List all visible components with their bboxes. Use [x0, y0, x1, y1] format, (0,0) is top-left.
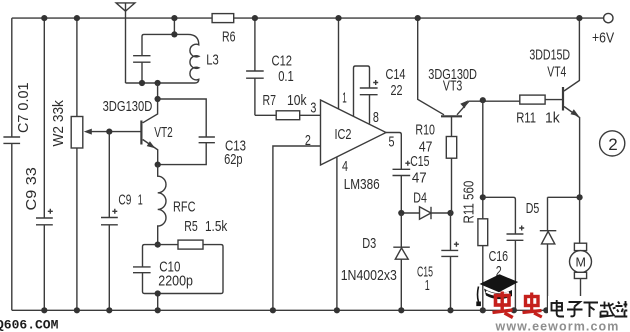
svg-text:8: 8: [373, 110, 379, 126]
node dot tank bottom cap: [139, 80, 145, 86]
inductor L3: [188, 34, 199, 83]
svg-text:1.5k: 1.5k: [205, 219, 228, 235]
capacitor C14: [354, 66, 379, 124]
diode D4: [401, 207, 450, 219]
capacitor C14 label: [386, 67, 406, 99]
watermark red character chong 2: [523, 293, 542, 318]
node dot ground-D3: [398, 307, 404, 313]
svg-text:22: 22: [391, 83, 403, 99]
node dot rail-C9a: [41, 15, 47, 21]
node dot D4 right: [447, 210, 453, 216]
watermark character zi: [567, 302, 583, 316]
node dot rail-VT3: [415, 15, 421, 21]
watermark red character chong 1: [493, 292, 513, 318]
capacitor C16: [483, 197, 524, 310]
diode D3: [393, 213, 410, 310]
node dot VT3 emitter junction: [480, 97, 486, 103]
svg-text:IC2: IC2: [335, 127, 352, 143]
node dot rail-C12: [252, 15, 258, 21]
svg-text:5: 5: [389, 135, 395, 151]
node dot ground-D5: [543, 307, 549, 313]
resistor R7: [255, 111, 321, 120]
node dot wiper junction: [106, 129, 112, 135]
wire wiper to VT2 base: [109, 131, 141, 133]
capacitor C15a label: [410, 154, 429, 187]
capacitor C10 label: [158, 260, 193, 290]
wire pin2 to ground: [273, 146, 321, 310]
svg-text:D4: D4: [413, 191, 427, 207]
capacitor C13 label: [224, 139, 246, 168]
node dot rail-tank: [171, 15, 177, 21]
node dot RFC bottom: [155, 242, 161, 248]
svg-text:R5: R5: [184, 219, 198, 235]
inductor RFC: [158, 165, 166, 245]
svg-text:47: 47: [412, 171, 427, 187]
watermark white panel behind site name: [548, 296, 630, 319]
node dot tank bottom collector: [155, 80, 161, 86]
resistor R7 label: [263, 93, 308, 109]
wire bottom ground rail: [12, 309, 579, 311]
svg-text:0.1: 0.1: [278, 69, 294, 85]
svg-text:www.eeworm.com: www.eeworm.com: [495, 320, 620, 332]
svg-text:1: 1: [138, 193, 143, 209]
node dot ground-C9b: [106, 307, 112, 313]
svg-text:R6: R6: [222, 29, 236, 45]
node dot ground-W2: [74, 307, 80, 313]
capacitor C9b label: [118, 193, 142, 209]
svg-text:3DD15D: 3DD15D: [529, 48, 570, 64]
node dot ground-pin2: [270, 307, 276, 313]
resistor R5 label: [184, 219, 228, 235]
svg-text:W2 33k: W2 33k: [51, 99, 67, 146]
svg-text:D3: D3: [362, 236, 376, 252]
capacitor C15a (47uF on output): [386, 133, 410, 214]
wire pin1 to rail: [338, 18, 340, 109]
svg-text:2200p: 2200p: [158, 274, 193, 290]
node dot ground-R11b: [480, 307, 486, 313]
watermark character zhan: [615, 301, 628, 317]
resistor R10: [446, 116, 456, 213]
watermark character xia: [584, 303, 599, 318]
node dot ground-C15b: [447, 307, 453, 313]
capacitor C9a line (33uF electrolytic): [36, 18, 53, 310]
svg-text:C14: C14: [386, 67, 406, 83]
svg-text:1: 1: [342, 91, 347, 107]
svg-text:+6V: +6V: [592, 30, 614, 46]
node dot tank top: [171, 31, 177, 37]
potentiometer W2 line: [76, 18, 78, 310]
resistor R11b (560) vertical: [478, 100, 488, 310]
capacitor tank (left leg): [133, 34, 150, 83]
node dot ground-C9a: [41, 307, 47, 313]
svg-text:R11: R11: [516, 111, 536, 127]
svg-text:C16: C16: [489, 249, 509, 265]
capacitor C15b (1uF): [441, 213, 459, 310]
svg-text:2: 2: [608, 135, 617, 154]
capacitor C9b line (1uF electrolytic): [101, 132, 118, 311]
svg-text:VT3: VT3: [443, 79, 462, 95]
potentiometer W2 wiper arrow: [90, 131, 109, 133]
capacitor C7 line: [3, 18, 20, 310]
svg-text:Q606.COM: Q606.COM: [0, 318, 59, 332]
node number 2 circled: [600, 131, 625, 156]
wire C10/R5 bottom loop: [145, 294, 222, 311]
capacitor C15b label: [417, 265, 433, 295]
svg-text:R11 560: R11 560: [462, 181, 478, 224]
svg-text:C7 0.01: C7 0.01: [16, 83, 32, 134]
svg-text:1: 1: [425, 278, 430, 294]
antenna: [116, 3, 135, 83]
wire collector to C13: [158, 99, 207, 137]
wire top supply rail: [12, 17, 604, 19]
svg-text:10k: 10k: [287, 93, 307, 109]
svg-text:VT2: VT2: [154, 125, 173, 141]
node dot rail-VT4: [576, 15, 582, 21]
node dot rail-W2: [74, 15, 80, 21]
svg-text:C15: C15: [410, 154, 429, 170]
resistor R10 label: [415, 123, 435, 156]
node dot rail-pin1: [335, 15, 341, 21]
potentiometer W2 body: [71, 117, 83, 149]
svg-text:3: 3: [310, 101, 316, 117]
wire tank bottom: [126, 82, 196, 84]
resistor R5: [158, 240, 223, 293]
svg-text:47: 47: [419, 140, 433, 156]
svg-text:LM386: LM386: [344, 177, 380, 193]
watermark character dian: [552, 300, 565, 317]
svg-text:L3: L3: [206, 53, 219, 69]
svg-text:62p: 62p: [224, 152, 243, 168]
wire tank top: [144, 33, 188, 35]
resistor R11a (1k): [520, 95, 563, 104]
wire pin4 to ground: [336, 157, 338, 310]
transistor VT3: [418, 18, 520, 116]
wire tank feed from rail: [173, 18, 175, 34]
svg-text:C12: C12: [272, 54, 293, 70]
resistor R11a label: [516, 111, 560, 127]
svg-text:1k: 1k: [545, 111, 560, 127]
watermark graduation cap logo: [476, 274, 518, 306]
capacitor C10: [133, 245, 158, 294]
capacitor C12 label: [272, 54, 294, 85]
svg-text:RFC: RFC: [173, 200, 196, 216]
node dot R11b-C16 junction: [480, 194, 486, 200]
op-amp IC2 triangle: [321, 100, 387, 165]
node dot VT2 collector: [155, 96, 161, 102]
capacitor C16 label: [489, 249, 509, 280]
node dot ground-C16: [511, 307, 517, 313]
svg-text:M: M: [576, 256, 586, 270]
node dot ground-pin4: [334, 307, 340, 313]
motor M: [570, 197, 592, 310]
svg-text:1N4002x3: 1N4002x3: [341, 268, 397, 284]
svg-text:R7: R7: [263, 93, 277, 109]
transistor VT2: [141, 83, 157, 165]
watermark character zai: [600, 302, 616, 318]
node dot loop bottom: [155, 290, 161, 296]
transistor VT4: [563, 18, 580, 197]
node dot D4 left: [398, 210, 404, 216]
diode D5: [540, 197, 580, 310]
svg-text:4: 4: [342, 159, 348, 175]
terminal +6V: [592, 13, 614, 46]
svg-text:C9 33: C9 33: [24, 167, 40, 210]
node dot VT2 emitter: [155, 162, 161, 168]
node dot VT4 emitter-D5 junction: [577, 194, 583, 200]
svg-text:3DG130D: 3DG130D: [103, 99, 153, 115]
svg-text:D5: D5: [526, 201, 540, 217]
resistor R6 (in rail): [212, 14, 234, 23]
capacitor C12: [246, 18, 264, 115]
svg-text:C9: C9: [118, 193, 131, 209]
node dot ground-RFC: [155, 307, 161, 313]
svg-text:VT4: VT4: [547, 64, 566, 80]
svg-text:R10: R10: [415, 123, 435, 139]
capacitor C13: [158, 137, 215, 165]
